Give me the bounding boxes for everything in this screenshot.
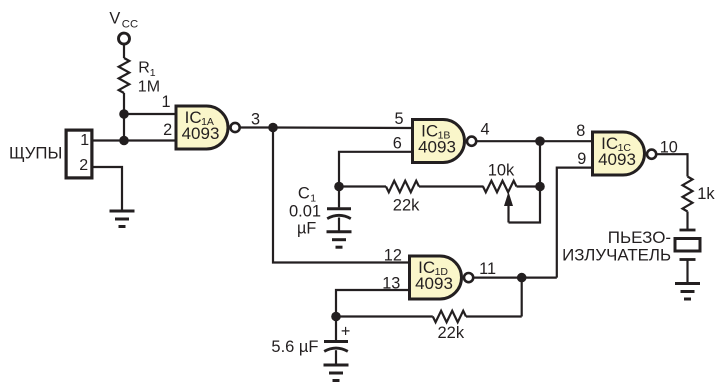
piezo sounder <box>675 230 700 260</box>
label 22k bottom <box>438 324 465 342</box>
wire node 3 to pin5 IC1B <box>273 126 411 129</box>
wire pin9 IC1C to node 11 <box>557 168 591 278</box>
svg-text:1: 1 <box>162 93 171 111</box>
pin number 3 / node 3 label <box>251 111 260 129</box>
NAND gate IC1A <box>176 106 240 149</box>
wire feedback up to node 4 <box>539 141 541 186</box>
label C1 value 0.01 <box>289 203 321 221</box>
wire 10k to junction <box>517 185 541 187</box>
wire probe pin2 to ground <box>94 167 123 211</box>
NAND gate IC1C <box>593 132 657 175</box>
svg-text:0.01: 0.01 <box>289 203 321 221</box>
svg-text:5.6 µF: 5.6 µF <box>271 338 318 356</box>
label C1 <box>298 184 316 204</box>
wire node to C1 <box>338 187 340 208</box>
pin number 8 IC1C <box>576 122 585 140</box>
label probes <box>9 144 62 163</box>
junction node 4 <box>535 136 545 146</box>
wire R1 to node <box>123 93 125 114</box>
resistor 22k top <box>386 181 419 192</box>
ground probe <box>110 211 135 227</box>
resistor 22k bottom <box>433 311 466 322</box>
wire cap node to 5.6uF <box>335 317 337 341</box>
wire IC1A output to node 3 <box>240 126 273 128</box>
label 22k top <box>393 196 420 214</box>
junction probe/pin2 <box>119 136 129 146</box>
pin number 12 IC1D <box>384 246 402 264</box>
svg-text:2: 2 <box>79 157 88 174</box>
ground C1 <box>327 232 352 248</box>
label piezo line2 <box>562 245 671 264</box>
wire wiper to right terminal <box>509 187 541 223</box>
svg-text:R: R <box>138 60 150 77</box>
pin number 6 IC1B <box>393 134 402 152</box>
wiper arrow 10k <box>504 192 513 223</box>
capacitor C1 <box>327 209 351 219</box>
svg-text:22k: 22k <box>438 324 465 342</box>
wire node to 22k <box>339 185 386 187</box>
polarity plus label <box>341 322 350 340</box>
svg-text:5: 5 <box>395 110 404 128</box>
junction R1/pin1 <box>119 109 129 119</box>
svg-text:CC: CC <box>122 18 138 30</box>
label piezo line1 <box>608 228 671 247</box>
wire pin1 IC1A <box>124 113 175 115</box>
ground 5.6uF <box>324 365 349 381</box>
wire node 11 down <box>521 278 523 317</box>
svg-text:9: 9 <box>577 150 586 168</box>
svg-text:4093: 4093 <box>415 274 453 293</box>
junction node 11 <box>517 273 527 283</box>
svg-text:13: 13 <box>382 275 400 293</box>
svg-text:C: C <box>298 184 310 202</box>
pin number 1 IC1A <box>162 93 171 111</box>
wire 1k to piezo <box>686 212 688 231</box>
wire 22k bottom to node 11 <box>466 315 522 317</box>
wire 22k to 10k <box>419 185 484 187</box>
NAND gate IC1B <box>413 120 477 163</box>
pin number 10 IC1C <box>660 138 678 156</box>
wire IC1C output to 1k <box>657 154 687 176</box>
ground piezo <box>675 284 700 300</box>
wire junction to junction <box>123 114 125 141</box>
pin number 13 IC1D <box>382 275 400 293</box>
svg-text:4: 4 <box>481 120 490 138</box>
junction C1 node <box>334 182 344 192</box>
wire node 3 down to pin12 IC1D <box>273 128 408 263</box>
svg-text:8: 8 <box>576 122 585 140</box>
junction pot right <box>535 182 545 192</box>
svg-text:1k: 1k <box>697 185 715 203</box>
label R1 <box>138 60 156 80</box>
resistor R1 <box>119 58 130 93</box>
Vcc terminal <box>119 33 130 44</box>
wire pin6 IC1B to node C1 <box>339 152 411 187</box>
wire cap node to 22k bottom <box>336 315 433 317</box>
NAND gate IC1D <box>410 256 474 299</box>
svg-text:4093: 4093 <box>598 150 636 169</box>
pin number 4 IC1B <box>481 120 490 138</box>
svg-text:µF: µF <box>297 220 316 238</box>
svg-text:4093: 4093 <box>182 124 220 143</box>
label 1k <box>697 185 715 203</box>
svg-text:10k: 10k <box>488 162 515 180</box>
junction node 3 <box>268 123 278 133</box>
svg-text:22k: 22k <box>393 196 420 214</box>
resistor 1k <box>683 177 693 212</box>
svg-text:6: 6 <box>393 134 402 152</box>
svg-text:ПЬЕЗО-: ПЬЕЗО- <box>608 228 671 247</box>
wire Vcc to R1 <box>123 44 125 58</box>
svg-text:1: 1 <box>150 67 156 79</box>
wire 5.6uF to ground <box>335 350 337 365</box>
pin number 2 IC1A <box>163 121 172 139</box>
label Vcc <box>109 10 138 31</box>
connector pin label 2 <box>79 157 88 174</box>
label C1 value uF <box>297 220 316 238</box>
wire node 4 to pin8 IC1C <box>540 140 591 142</box>
wire pin13 IC1D to cap node <box>336 290 408 317</box>
wire C1 to ground <box>338 218 340 232</box>
svg-text:2: 2 <box>163 121 172 139</box>
svg-text:11: 11 <box>479 260 496 278</box>
connector probes box <box>66 130 92 178</box>
pin number 5 IC1B <box>395 110 404 128</box>
wire probe pin1 to pin2 IC1A <box>94 139 175 141</box>
junction cap node <box>331 312 341 322</box>
svg-text:4093: 4093 <box>418 138 456 157</box>
wire piezo to ground <box>686 260 688 284</box>
svg-text:ЩУПЫ: ЩУПЫ <box>9 144 62 163</box>
svg-text:1M: 1M <box>138 79 160 96</box>
wire IC1B output node 4 <box>477 140 540 142</box>
pin number 11 IC1D <box>479 260 496 278</box>
svg-text:12: 12 <box>384 246 402 264</box>
svg-text:3: 3 <box>251 111 260 129</box>
svg-text:V: V <box>109 10 120 28</box>
potentiometer 10k <box>483 181 517 192</box>
pin number 9 IC1C <box>577 150 586 168</box>
label 5.6uF value <box>271 338 318 356</box>
connector pin label 1 <box>80 132 89 149</box>
wire IC1D output node 11 <box>474 277 557 279</box>
label R1 value 1M <box>138 79 160 96</box>
svg-text:1: 1 <box>80 132 89 149</box>
svg-text:ИЗЛУЧАТЕЛЬ: ИЗЛУЧАТЕЛЬ <box>562 245 671 264</box>
svg-text:10: 10 <box>660 138 678 156</box>
svg-text:+: + <box>341 322 350 340</box>
capacitor 5.6uF <box>324 342 348 352</box>
label 10k <box>488 162 515 180</box>
